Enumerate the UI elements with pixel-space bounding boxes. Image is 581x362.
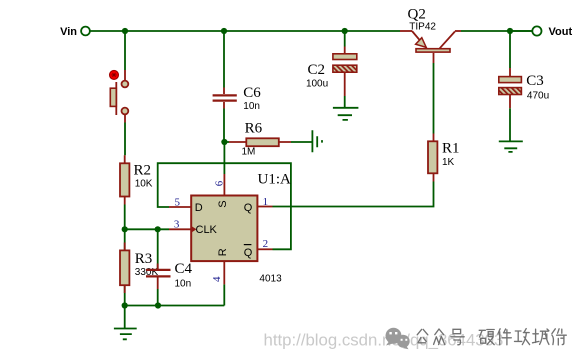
resistor R2 [120,155,153,204]
svg-text:CLK: CLK [196,224,218,236]
wire R3 to ground rail [124,294,126,306]
pin number 5 [175,196,181,208]
transistor Q2 [400,7,461,64]
watermark wechat icon [386,328,410,350]
pin 2 stub [257,248,272,250]
svg-text:http://blog.csdn.net/qq_364430: http://blog.csdn.net/qq_3644303 [264,331,504,350]
wire R2 to CLK node [124,205,126,230]
svg-text:4: 4 [211,276,223,282]
node Vout [532,26,572,38]
junction R2/R3/CLK [122,226,128,232]
capacitor C2 [306,31,357,96]
wire CLK net [125,228,169,230]
svg-text:R2: R2 [134,163,152,179]
pin 3 stub [169,228,191,230]
ground C3 [499,141,523,152]
svg-text:100u: 100u [306,79,328,90]
flip-flop U1:A [191,172,291,285]
svg-text:C6: C6 [243,85,261,101]
svg-text:C4: C4 [175,261,193,277]
node Vin [60,26,90,38]
resistor R3 [120,229,158,294]
resistor R1 [428,134,460,182]
svg-text:10K: 10K [135,179,153,190]
wire C4 to ground rail [157,289,159,306]
pin number 2 [263,238,269,250]
ground C2 [333,108,359,120]
svg-text:5: 5 [175,196,181,208]
svg-text:U1:A: U1:A [258,172,292,188]
junction R3-gnd [122,302,128,308]
capacitor C4 [146,229,193,289]
svg-text:4013: 4013 [259,274,282,285]
junction button-top [122,28,128,34]
capacitor C6 [213,31,262,112]
pushbutton SW [110,70,129,123]
pin number 3 [174,219,180,231]
svg-text:1: 1 [263,196,269,208]
ground R6 (rotated) [312,130,322,152]
wire top rail right [461,30,532,32]
svg-text:R: R [217,248,229,256]
svg-text:R3: R3 [135,251,153,267]
svg-text:C3: C3 [526,73,544,89]
svg-text:R1: R1 [442,141,460,157]
svg-text:3: 3 [174,219,180,231]
svg-text:TIP42: TIP42 [409,22,436,33]
junction C4-gnd [155,302,161,308]
wire R1 to Q output [273,182,434,207]
wire C2 to ground [344,96,346,108]
wire S-node to pin6 [223,142,225,174]
watermark url [264,331,504,350]
capacitor C3 [499,31,549,108]
junction C4-top [155,226,161,232]
junction Vout-rail [507,28,513,34]
wire pin4 riser [223,284,225,305]
pin 6 stub [223,174,225,196]
junction C2-top [342,28,348,34]
svg-text:470u: 470u [527,91,549,102]
watermark text gongzhonghao [417,329,566,345]
svg-text:S: S [217,200,229,207]
resistor R6 [224,121,311,158]
wire top rail left [90,30,400,32]
svg-text:2: 2 [263,238,269,250]
pin number 1 [263,196,269,208]
svg-text:6: 6 [214,180,226,186]
wire junction to Vout [510,30,532,32]
junction C6-top [221,28,227,34]
svg-text:Q: Q [244,202,253,214]
pin number 4 [211,276,223,282]
wire Qbar-to-D feedback [158,163,291,249]
pin number 6 [214,180,226,186]
svg-text:10n: 10n [243,101,260,112]
svg-text:Vin: Vin [60,26,77,38]
pin 1 stub [257,206,272,208]
svg-text:C2: C2 [307,62,325,78]
wire C3 to ground [509,108,511,141]
junction S-node [221,139,227,145]
wire button to R2 [124,123,126,156]
wire C6 to S-node [223,109,225,143]
svg-text:D: D [195,202,203,214]
svg-text:10n: 10n [175,278,192,289]
wire base to R1 [433,63,435,134]
wire ground rail [125,305,225,307]
svg-text:1M: 1M [242,147,256,158]
ground main [114,306,137,340]
svg-text:Q: Q [244,247,253,259]
svg-text:R6: R6 [245,121,263,137]
svg-text:1K: 1K [442,157,455,168]
pin 4 stub [223,261,225,284]
svg-text:Q2: Q2 [408,7,426,23]
pin 5 stub [169,206,191,208]
wire rail to button [124,31,126,70]
svg-text:Vout: Vout [549,26,573,38]
